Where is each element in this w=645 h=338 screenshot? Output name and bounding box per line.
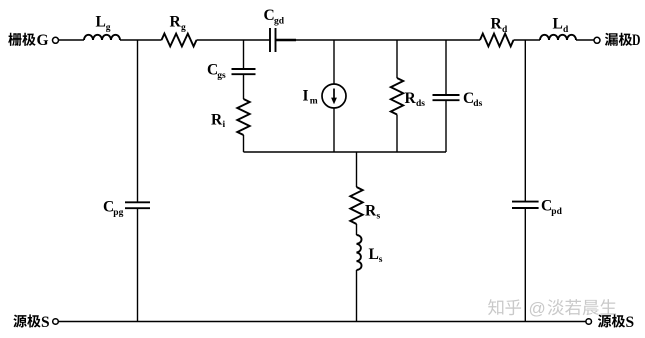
- wire Cgs to Ri: [243, 74, 245, 99]
- svg-text:S: S: [626, 314, 635, 331]
- svg-text:L: L: [96, 14, 106, 31]
- svg-text:R: R: [365, 203, 377, 220]
- wire Lg to Rg: [120, 39, 162, 41]
- svg-text:R: R: [405, 90, 417, 107]
- svg-text:g: g: [181, 23, 186, 33]
- resistor Ri: [237, 99, 249, 135]
- wire Cgd to Rd (thick start): [276, 39, 297, 41]
- svg-text:R: R: [211, 112, 223, 129]
- resistor Rds: [391, 78, 403, 115]
- watermark 知乎 @淡若晨生: [488, 299, 503, 315]
- source terminal circle left: [53, 319, 59, 325]
- current source branch wire top: [333, 40, 335, 84]
- bottom wire: [58, 321, 585, 323]
- svg-text:R: R: [491, 16, 503, 33]
- capacitor Cgs: [232, 69, 256, 74]
- svg-text:d: d: [563, 25, 569, 35]
- branch Cds wire top: [445, 40, 447, 95]
- resistor Rg: [162, 34, 197, 47]
- svg-text:I: I: [303, 88, 309, 105]
- wire Ri to inner bottom: [243, 135, 245, 152]
- capacitor Cds: [433, 95, 460, 100]
- svg-text:s: s: [379, 255, 383, 265]
- label 栅极G gate terminal: [8, 33, 21, 46]
- wire gate input segment: [59, 39, 85, 41]
- source terminal circle right: [586, 319, 592, 325]
- wire Rg to Cgd: [197, 39, 271, 41]
- svg-text:ds: ds: [473, 99, 482, 109]
- gate terminal circle: [53, 37, 59, 43]
- svg-text:S: S: [41, 314, 50, 331]
- svg-text:ds: ds: [416, 99, 425, 109]
- inductor Ld: [540, 35, 576, 40]
- wire Rs to Ls: [356, 224, 358, 235]
- label 源极S source terminal left: [13, 315, 26, 328]
- current source branch wire bottom: [333, 108, 335, 152]
- label 漏极D drain terminal: [605, 33, 618, 46]
- svg-text:L: L: [369, 246, 379, 263]
- current source arrow: [333, 89, 335, 100]
- svg-text:g: g: [106, 23, 111, 33]
- wire Rd to Ld: [514, 39, 541, 41]
- svg-text:gd: gd: [274, 16, 285, 26]
- source branch wire top: [356, 152, 358, 187]
- branch Cpg vertical wire lower: [137, 208, 139, 321]
- inductor Lg: [84, 35, 120, 40]
- svg-text:R: R: [170, 14, 182, 31]
- branch Cpd vertical wire lower: [524, 208, 526, 322]
- branch Rds wire top: [396, 40, 398, 78]
- branch Cgs/Ri vertical wire top: [243, 40, 245, 69]
- capacitor Cpg: [125, 202, 150, 208]
- svg-text:i: i: [223, 120, 226, 130]
- label 源极S source terminal right: [598, 315, 611, 328]
- svg-text:D: D: [632, 32, 641, 49]
- resistor Rs: [350, 187, 362, 224]
- svg-text:s: s: [377, 212, 381, 222]
- drain terminal circle: [594, 37, 600, 43]
- svg-text:pd: pd: [551, 207, 562, 217]
- svg-text:gs: gs: [217, 71, 226, 81]
- svg-text:m: m: [310, 97, 318, 107]
- inductor Ls: [357, 235, 362, 270]
- current source Im circle: [322, 84, 346, 108]
- branch Cpg vertical wire upper: [137, 40, 139, 202]
- svg-text:d: d: [502, 25, 508, 35]
- capacitor Cpd: [512, 202, 539, 208]
- branch Cds wire bottom: [445, 100, 447, 152]
- branch Rds wire bottom: [396, 115, 398, 153]
- capacitor Cgd: [270, 28, 276, 52]
- drain node vertical wire upper / Cpd branch: [524, 40, 526, 202]
- svg-text:@: @: [529, 299, 546, 318]
- svg-text:pg: pg: [113, 208, 123, 218]
- source branch wire bottom: [356, 270, 358, 322]
- wire Ld to drain terminal: [576, 39, 594, 41]
- resistor Rd: [480, 34, 514, 47]
- svg-text:G: G: [37, 32, 49, 49]
- svg-text:L: L: [553, 16, 563, 33]
- inner bottom wire: [244, 151, 447, 153]
